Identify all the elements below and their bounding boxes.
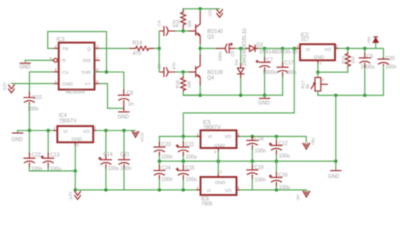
- capacitor C8 47n: [157, 62, 177, 76]
- svg-text:VI: VI: [207, 188, 211, 193]
- wire IC4 VO rail: [97, 130, 135, 132]
- ground symbol bottom right: [335, 161, 337, 170]
- node C19 on ground rail: [251, 160, 254, 163]
- svg-text:GND: GND: [214, 143, 225, 148]
- svg-text:VO: VO: [83, 129, 90, 134]
- node Q3/Q4 output junction: [199, 47, 202, 50]
- wire V+ jog to C9 bottom / GND: [99, 84, 123, 109]
- svg-text:GND: GND: [118, 114, 130, 120]
- svg-text:8: 8: [96, 80, 98, 84]
- node C12/C16 on ground rail: [275, 160, 278, 163]
- svg-text:100u: 100u: [279, 153, 290, 159]
- capacitor C22 100n: [24, 131, 43, 173]
- svg-text:VI: VI: [63, 129, 67, 134]
- svg-text:100u: 100u: [217, 51, 222, 61]
- node C12 top: [275, 135, 278, 138]
- node C6 top: [363, 47, 366, 50]
- wire IC2 GND to ADJ node: [317, 64, 319, 73]
- op-amp timer IC3 NE555N: [50, 37, 100, 96]
- wire IC4 GND down to -12V rail: [74, 146, 76, 190]
- svg-text:Q3: Q3: [207, 34, 214, 40]
- node -12V rail corner: [74, 188, 77, 191]
- wire right ground rail: [318, 65, 384, 96]
- svg-text:100n: 100n: [161, 177, 172, 183]
- wire IC5 GND to ground rail: [217, 151, 219, 161]
- svg-text:V+: V+: [85, 82, 91, 87]
- node C4/R11/Q3-base junction: [182, 29, 185, 32]
- svg-text:GND: GND: [328, 174, 340, 180]
- node right-rail link down: [334, 94, 337, 97]
- IC3 pin 3 Q stub: [95, 47, 100, 49]
- IC3 pin 6 THR stub: [95, 71, 100, 73]
- wire IC4 input rail: [18, 130, 58, 132]
- node C11/C15 on ground rail: [182, 160, 185, 163]
- svg-text:100n: 100n: [161, 154, 172, 160]
- svg-text:7805TV: 7805TV: [203, 125, 221, 131]
- svg-text:GND: GND: [19, 65, 31, 71]
- svg-text:C9: C9: [127, 90, 134, 96]
- svg-text:-12V: -12V: [2, 82, 7, 91]
- svg-text:C5: C5: [230, 50, 235, 56]
- svg-text:NE555N: NE555N: [65, 90, 85, 96]
- capacitor C20 100n: [378, 56, 397, 70]
- svg-text:2: 2: [55, 45, 57, 49]
- svg-text:1: 1: [320, 61, 322, 65]
- svg-text:VO: VO: [225, 188, 232, 193]
- node C15 bottom: [182, 188, 185, 191]
- capacitor C23 100n: [154, 142, 173, 161]
- capacitor C11 100u: [176, 136, 197, 161]
- svg-text:C11: C11: [185, 142, 194, 148]
- node THR junction: [105, 70, 108, 73]
- wire -12V top rail: [183, 8, 219, 10]
- supply -12V at IC3 GND pin: [11, 83, 53, 85]
- capacitor C19 100n: [247, 161, 266, 190]
- capacitor C16 100u: [269, 161, 290, 191]
- svg-text:100u: 100u: [108, 166, 119, 172]
- svg-text:3: 3: [237, 186, 239, 190]
- svg-text:VI: VI: [305, 47, 309, 52]
- node C23/C24 on ground rail: [158, 160, 161, 163]
- svg-text:-12V: -12V: [68, 191, 73, 200]
- svg-text:100n: 100n: [255, 178, 266, 184]
- wire -12V rail to IC6 VI: [75, 189, 197, 191]
- svg-text:1: 1: [197, 132, 199, 136]
- node ADJ junction: [316, 71, 319, 74]
- capacitor C24 100n: [154, 161, 173, 190]
- node C6 bottom: [363, 94, 366, 97]
- svg-text:TR: TR: [62, 46, 69, 51]
- svg-text:7905: 7905: [201, 202, 212, 208]
- voltage regulator IC5 7805TV: [197, 120, 240, 154]
- diode D4 1N4148DO35-10: [234, 28, 248, 95]
- svg-text:3: 3: [297, 44, 299, 48]
- node Q3 emitter junction on -12V rail: [199, 7, 202, 10]
- IC3 pin 7 DIS stub: [95, 59, 100, 61]
- ground symbol at R pin: [25, 60, 52, 61]
- capacitor C5 100u: [200, 43, 235, 61]
- wire C4 to R11 junction: [176, 30, 184, 32]
- svg-text:THR: THR: [81, 70, 91, 75]
- node C8/R16/Q4-base junction: [182, 70, 185, 73]
- wire IC5 VO rail: [240, 136, 306, 142]
- ground symbol mid rail: [264, 95, 266, 98]
- svg-text:1N4148DO35-10: 1N4148DO35-10: [242, 28, 248, 66]
- node C14 bottom: [104, 188, 107, 191]
- wire THR pin to junction: [95, 71, 107, 73]
- resistor R16 10k: [175, 72, 200, 95]
- svg-text:100n: 100n: [285, 70, 296, 76]
- svg-text:1000u: 1000u: [361, 65, 375, 71]
- svg-text:C7: C7: [266, 57, 273, 63]
- svg-text:5: 5: [55, 68, 57, 72]
- svg-text:VO: VO: [324, 47, 331, 52]
- svg-text:C24: C24: [161, 166, 171, 172]
- svg-text:317: 317: [301, 37, 310, 43]
- svg-text:C20: C20: [385, 56, 395, 62]
- IC3 pin 5 CV stub: [54, 71, 59, 73]
- wire IC6 GND to ground rail: [217, 161, 219, 174]
- svg-text:GND: GND: [258, 100, 270, 106]
- svg-text:C22: C22: [31, 153, 41, 159]
- ground symbol below C9: [119, 111, 129, 113]
- svg-text:GND: GND: [11, 137, 23, 143]
- svg-text:10k: 10k: [187, 20, 192, 28]
- svg-text:470: 470: [133, 51, 142, 57]
- svg-text:5k: 5k: [305, 83, 310, 88]
- svg-text:Q: Q: [87, 46, 91, 51]
- node IC4 GND junction: [74, 169, 77, 172]
- IC3 pin 8 V+ stub: [95, 83, 100, 85]
- svg-text:2: 2: [197, 186, 199, 190]
- wire junction down to C8: [159, 48, 160, 72]
- svg-text:C21: C21: [120, 152, 130, 158]
- svg-text:C15: C15: [185, 166, 195, 172]
- voltage regulator IC2 317: [297, 32, 339, 65]
- node C24 bottom: [158, 188, 161, 191]
- wire ADJ to R15 bottom: [318, 71, 348, 73]
- node C13 on input rail: [47, 129, 50, 132]
- svg-text:47n: 47n: [171, 62, 176, 70]
- wire THR junction to C9: [107, 72, 124, 90]
- supply -12V bottom: [75, 192, 81, 200]
- node C17 top junction: [281, 47, 284, 50]
- supply arrow VCO: [132, 132, 139, 138]
- svg-text:100n: 100n: [385, 65, 396, 71]
- svg-text:3: 3: [237, 132, 239, 136]
- wire +12V link down and left to lower distribution: [183, 48, 294, 136]
- svg-text:+9V: +9V: [367, 36, 372, 44]
- resistor R14 470: [99, 40, 154, 57]
- svg-text:C23: C23: [161, 142, 171, 148]
- svg-text:GND: GND: [314, 55, 325, 60]
- node R14/C4/C8 junction: [158, 47, 161, 50]
- supply -12V top right: [217, 10, 223, 18]
- svg-text:2: 2: [336, 44, 338, 48]
- svg-text:1: 1: [220, 170, 222, 174]
- capacitor C18 100n: [247, 136, 266, 161]
- svg-text:GND: GND: [215, 180, 226, 185]
- capacitor C6 1000u: [359, 48, 375, 95]
- svg-text:1: 1: [53, 126, 55, 130]
- svg-text:Q4: Q4: [207, 75, 214, 81]
- svg-text:C6: C6: [367, 54, 374, 60]
- svg-text:R16: R16: [175, 80, 180, 89]
- capacitor C15 100u: [176, 161, 197, 190]
- svg-text:1: 1: [55, 80, 57, 84]
- svg-text:10k: 10k: [186, 80, 191, 88]
- diode D3 1N4148DO35-10: [241, 42, 298, 55]
- wire D3 to C7 junction: [258, 47, 264, 49]
- node +12V link junction: [293, 47, 296, 50]
- node IC6 GND on ground rail: [217, 160, 220, 163]
- svg-text:7: 7: [96, 56, 98, 60]
- svg-text:2: 2: [214, 150, 216, 154]
- wire TR feedback loop to THR: [48, 32, 107, 72]
- wire C7 junction to C17 junction: [265, 47, 283, 49]
- wire ground rail left section: [183, 94, 282, 96]
- svg-text:C13: C13: [50, 153, 60, 159]
- wire IC2 VO to R15 junction: [338, 47, 347, 49]
- svg-text:R: R: [62, 58, 66, 63]
- svg-text:1000u: 1000u: [262, 70, 276, 76]
- capacitor C13 100u: [41, 131, 61, 173]
- svg-text:C14: C14: [103, 152, 113, 158]
- resistor R11 10k: [175, 9, 192, 29]
- wire CV to C10: [29, 72, 53, 92]
- svg-text:2: 2: [322, 78, 324, 82]
- wire junction up to C4: [159, 31, 160, 48]
- wire IC5 VI rail: [159, 135, 197, 137]
- node R15/VO junction: [346, 47, 349, 50]
- supply +9V symbol: [375, 43, 377, 49]
- svg-text:D4: D4: [234, 59, 239, 65]
- wire IC6 VO rail to -5V: [240, 189, 307, 192]
- svg-text:220: 220: [350, 56, 355, 64]
- wire ground rail bottom: [159, 160, 335, 162]
- node C7 bottom junction with ground: [263, 94, 266, 97]
- capacitor C10 100n: [24, 92, 42, 112]
- wire C23 corner from VI rail: [158, 136, 160, 142]
- node C16 bottom: [275, 188, 278, 191]
- svg-text:R14: R14: [133, 40, 143, 46]
- svg-text:100u: 100u: [186, 154, 197, 160]
- node C5/D3/D4 junction: [239, 47, 242, 50]
- svg-text:C4: C4: [157, 20, 162, 26]
- svg-text:100u: 100u: [186, 177, 197, 183]
- potentiometer R17 5k: [300, 72, 327, 95]
- svg-text:-5V: -5V: [295, 194, 300, 201]
- svg-text:GND: GND: [62, 82, 73, 87]
- svg-text:R11: R11: [175, 19, 180, 27]
- node Q4 emitter on ground rail: [199, 94, 202, 97]
- svg-text:GND: GND: [72, 136, 83, 141]
- svg-text:100n: 100n: [255, 149, 266, 155]
- voltage regulator IC6 7905: [197, 170, 240, 208]
- node C21 top: [122, 129, 125, 132]
- node C18 top: [251, 135, 254, 138]
- supply arrow -5V: [303, 191, 310, 197]
- svg-text:1n: 1n: [128, 101, 134, 107]
- svg-text:+5V: +5V: [311, 137, 316, 145]
- node C7 top junction: [263, 47, 266, 50]
- capacitor C17 100n: [277, 48, 297, 95]
- node ground rail right end: [334, 160, 337, 163]
- capacitor C21 100n: [119, 131, 132, 190]
- wire C5 to D4 junction: [235, 47, 241, 49]
- svg-text:7805TV: 7805TV: [59, 119, 77, 125]
- transistor Q4 BD139: [183, 48, 223, 95]
- svg-text:C16: C16: [278, 173, 288, 179]
- wire R14 to junction: [154, 47, 159, 49]
- transistor Q3 BD140: [183, 9, 223, 49]
- svg-text:C10: C10: [32, 95, 42, 101]
- capacitor C7 1000u: [256, 48, 277, 95]
- wire VO rail to C6 and C20: [348, 48, 384, 58]
- svg-text:C18: C18: [254, 137, 264, 143]
- svg-text:C17: C17: [284, 60, 294, 66]
- wire C22/C13 bottom rail to IC4 GND: [29, 170, 75, 172]
- node D4 on ground rail: [239, 94, 242, 97]
- wire link from right rail down to bottom ground rail: [335, 95, 337, 161]
- supply arrow +5V: [303, 143, 310, 149]
- svg-text:100u: 100u: [279, 185, 290, 191]
- capacitor C12 100u: [269, 136, 290, 161]
- ground symbol at IC4 input rail: [17, 131, 19, 133]
- svg-text:VO: VO: [225, 134, 232, 139]
- IC3 pin 4 R stub with inversion circle: [54, 58, 58, 62]
- capacitor C9 1n: [118, 90, 133, 110]
- node C10/C22 on input rail: [28, 129, 31, 132]
- svg-text:C8: C8: [157, 63, 162, 69]
- capacitor C14 100u: [99, 131, 119, 190]
- svg-text:3: 3: [94, 126, 96, 130]
- svg-text:D3: D3: [256, 42, 263, 48]
- svg-text:VI: VI: [208, 134, 212, 139]
- svg-text:R15: R15: [341, 55, 346, 64]
- svg-text:VCO: VCO: [139, 132, 144, 142]
- wire C17 junction to IC2 VI: [283, 47, 297, 49]
- svg-text:CV: CV: [62, 70, 69, 75]
- svg-text:2: 2: [77, 144, 79, 148]
- node C14 top: [104, 129, 107, 132]
- svg-text:-12V: -12V: [208, 8, 213, 17]
- svg-text:C19: C19: [254, 165, 264, 171]
- node link on IC5 VI rail: [182, 135, 185, 138]
- IC3 pin 2 TR stub: [54, 47, 59, 49]
- svg-text:DIS: DIS: [83, 58, 91, 63]
- svg-text:100n: 100n: [120, 166, 131, 172]
- IC3 pin 1 GND stub: [54, 83, 59, 85]
- resistor R15 220: [341, 48, 355, 72]
- svg-text:3: 3: [96, 45, 98, 49]
- capacitor C4 47n: [157, 20, 177, 36]
- voltage regulator IC4 7805TV: [53, 113, 96, 148]
- wire C10 to IC4 input rail: [28, 105, 30, 131]
- svg-text:IC3: IC3: [57, 37, 65, 43]
- svg-text:C12: C12: [278, 141, 288, 147]
- wire C8 to R16 junction: [176, 71, 184, 73]
